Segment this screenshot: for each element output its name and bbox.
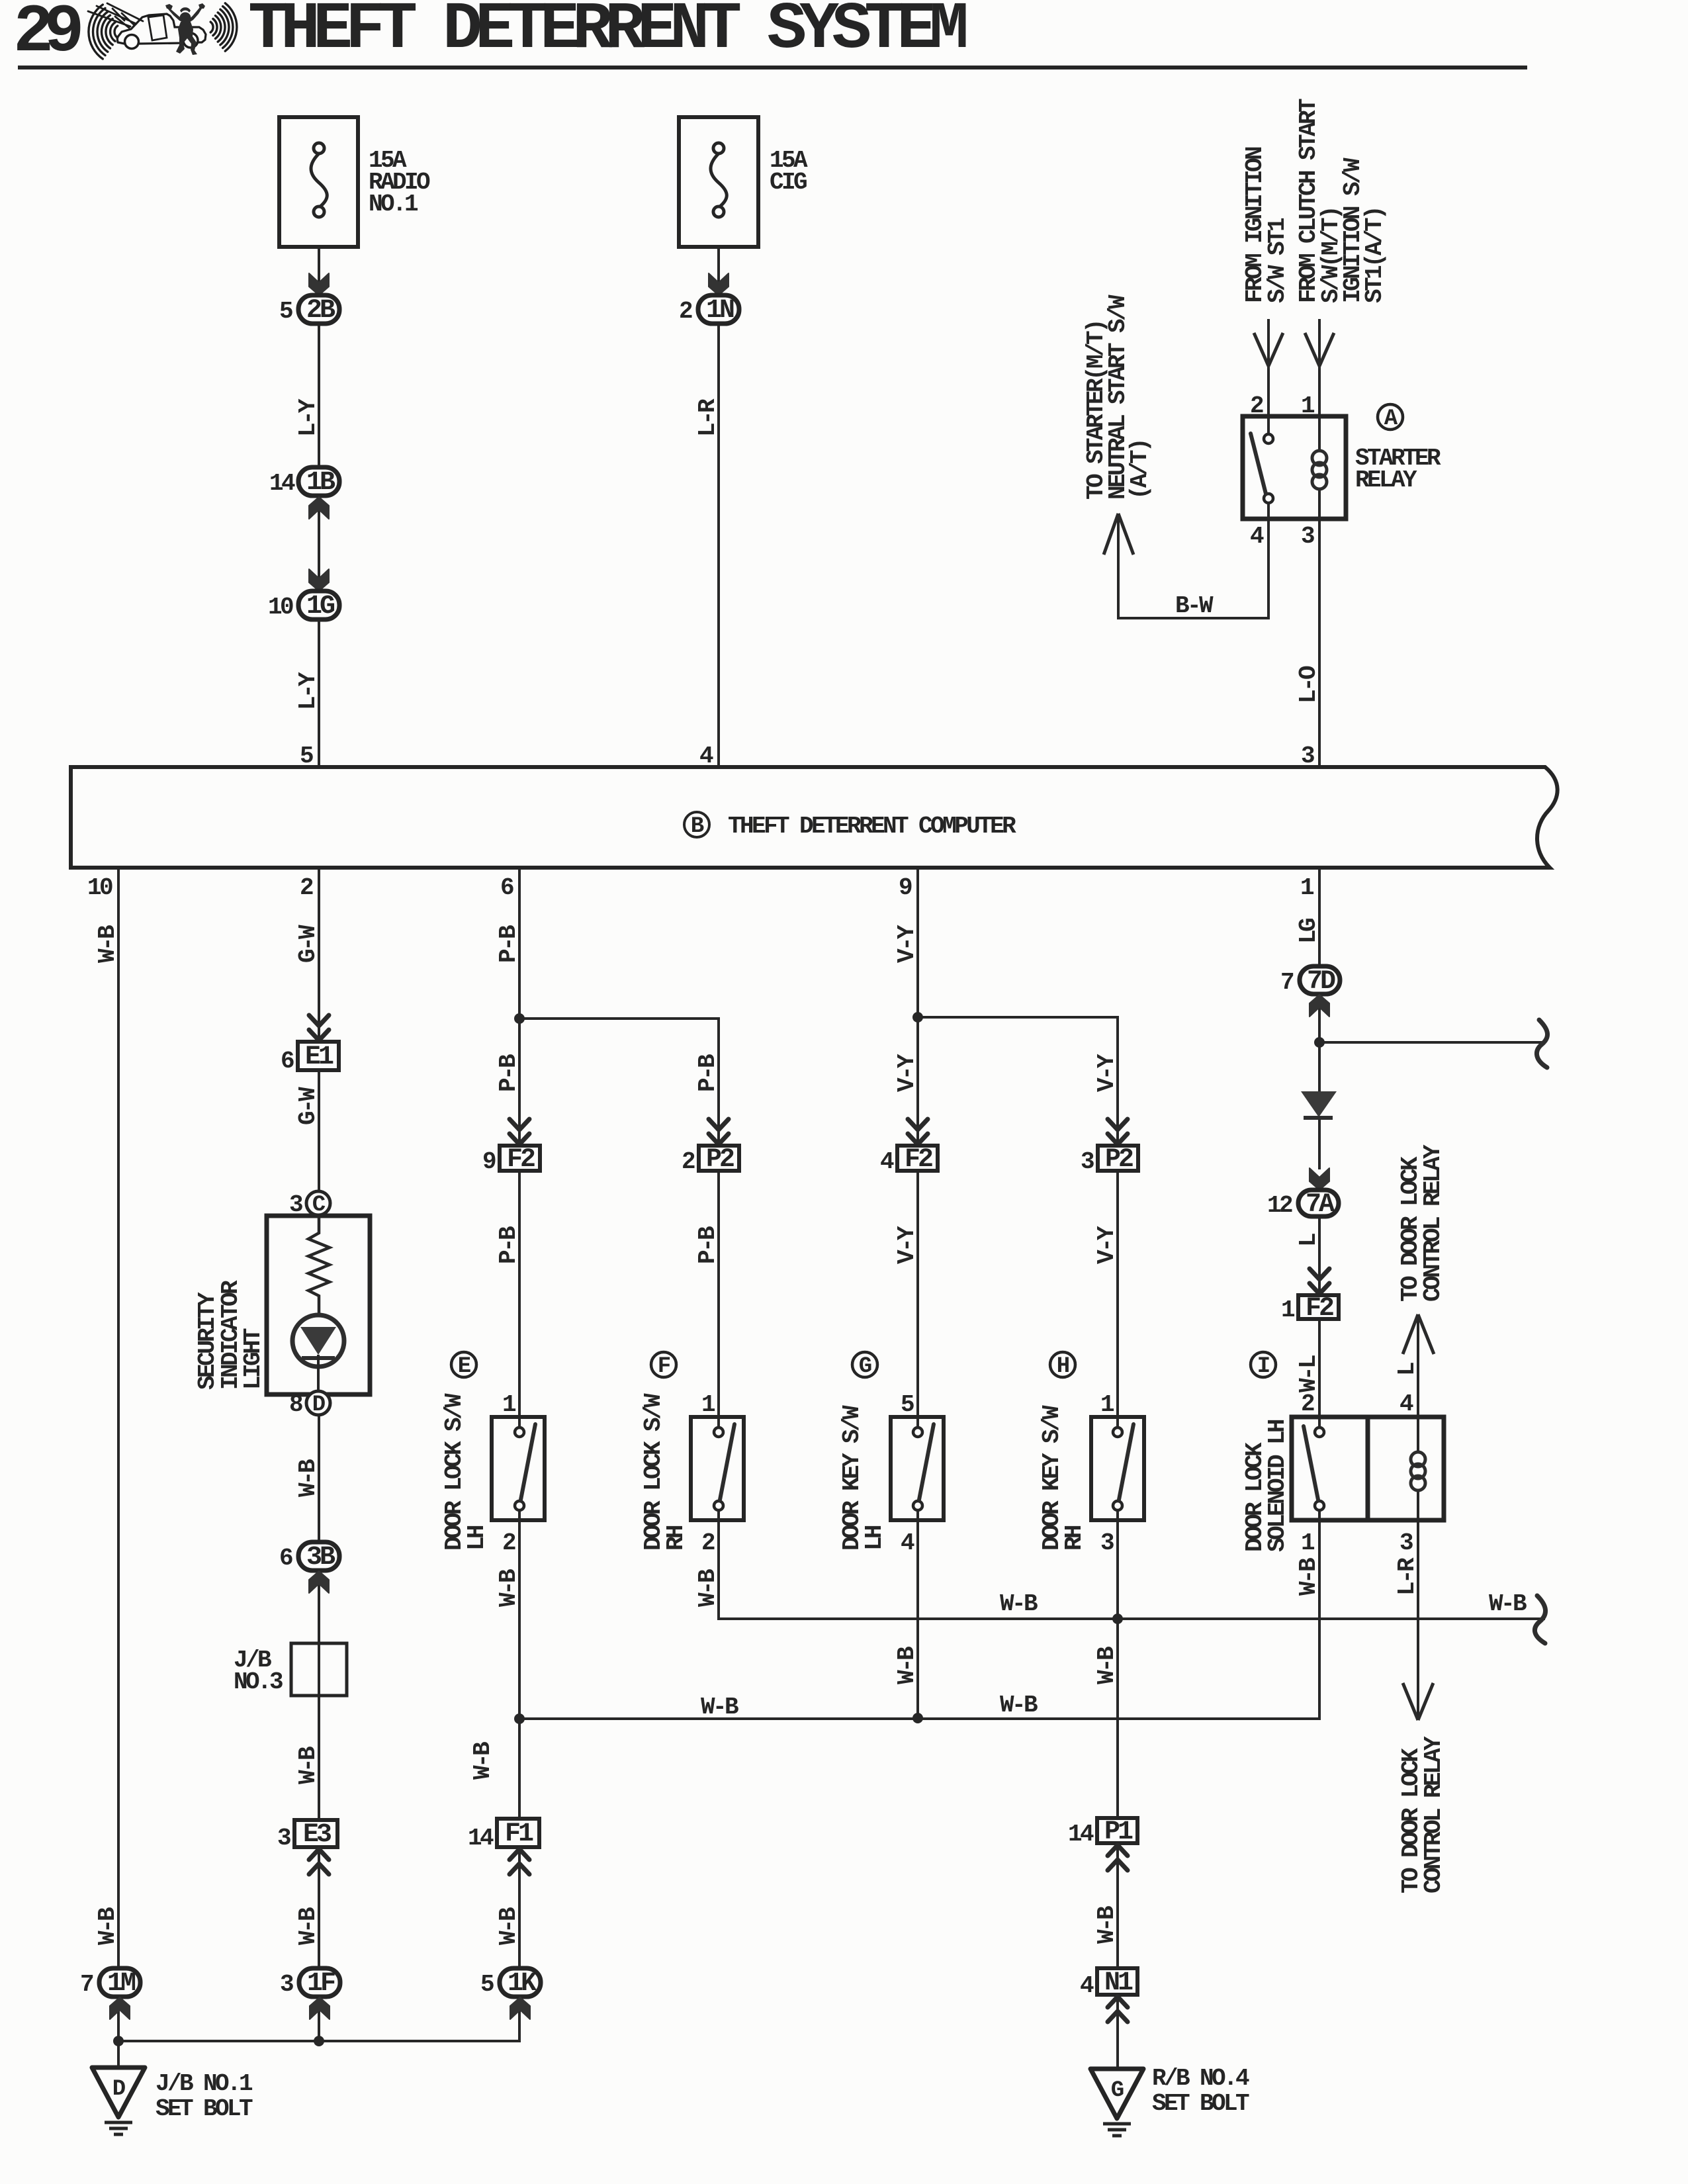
svg-text:L: L — [1295, 1234, 1322, 1247]
svg-text:10: 10 — [268, 594, 293, 621]
svg-text:W-B: W-B — [893, 1647, 920, 1684]
svg-text:W-L: W-L — [1295, 1355, 1322, 1392]
svg-text:THEFT DETERRENT COMPUTER: THEFT DETERRENT COMPUTER — [728, 813, 1016, 840]
svg-text:F2: F2 — [1306, 1294, 1333, 1324]
svg-text:L-R: L-R — [694, 398, 721, 437]
svg-text:F2: F2 — [507, 1145, 535, 1175]
svg-text:L-R: L-R — [1394, 1557, 1421, 1596]
svg-text:2: 2 — [701, 1529, 715, 1557]
svg-text:W-B: W-B — [1093, 1906, 1120, 1944]
svg-text:14: 14 — [269, 470, 295, 497]
svg-text:A: A — [1384, 406, 1398, 432]
svg-text:P-B: P-B — [495, 1226, 522, 1264]
svg-text:L-O: L-O — [1295, 666, 1322, 704]
svg-text:5: 5 — [300, 743, 313, 770]
svg-text:3: 3 — [1301, 523, 1314, 550]
svg-text:NO.3: NO.3 — [234, 1668, 283, 1696]
svg-text:I: I — [1257, 1354, 1269, 1379]
svg-text:2: 2 — [1250, 392, 1263, 420]
svg-text:N1: N1 — [1104, 1968, 1133, 1998]
svg-text:G: G — [1111, 2078, 1124, 2103]
svg-text:3: 3 — [1100, 1529, 1114, 1557]
svg-text:10: 10 — [87, 874, 112, 901]
svg-text:2: 2 — [502, 1529, 515, 1557]
svg-text:7: 7 — [80, 1971, 93, 1998]
svg-text:8: 8 — [289, 1391, 302, 1418]
svg-text:W-B: W-B — [294, 1459, 322, 1497]
svg-text:P-B: P-B — [694, 1054, 721, 1092]
svg-text:P-B: P-B — [495, 925, 522, 963]
svg-text:5: 5 — [279, 298, 292, 325]
svg-text:SET BOLT: SET BOLT — [1152, 2090, 1249, 2117]
svg-text:29: 29 — [13, 0, 81, 71]
svg-text:RH: RH — [1061, 1525, 1088, 1551]
svg-text:14: 14 — [468, 1825, 494, 1852]
svg-text:L: L — [1394, 1363, 1421, 1376]
svg-text:SOLENOID LH: SOLENOID LH — [1264, 1420, 1291, 1552]
svg-text:5: 5 — [901, 1391, 914, 1418]
svg-text:1: 1 — [1301, 1529, 1315, 1557]
svg-text:4: 4 — [699, 743, 713, 770]
svg-text:V-Y: V-Y — [1093, 1226, 1120, 1264]
svg-text:1: 1 — [1281, 1297, 1295, 1324]
svg-text:CONTROL RELAY: CONTROL RELAY — [1419, 1144, 1446, 1302]
svg-text:2: 2 — [682, 1148, 695, 1175]
svg-text:L-Y: L-Y — [294, 398, 322, 437]
svg-text:2: 2 — [679, 298, 692, 325]
svg-text:W-B: W-B — [294, 1747, 322, 1784]
svg-text:W-B: W-B — [94, 1907, 121, 1945]
svg-text:W-B: W-B — [495, 1907, 522, 1945]
svg-text:W-B: W-B — [1000, 1590, 1038, 1617]
svg-text:G-W: G-W — [294, 1087, 322, 1125]
svg-text:F: F — [658, 1354, 670, 1379]
svg-text:LH: LH — [463, 1525, 490, 1551]
svg-text:G: G — [859, 1354, 871, 1379]
svg-text:1: 1 — [1300, 874, 1314, 901]
svg-text:9: 9 — [482, 1148, 496, 1175]
svg-text:7: 7 — [1280, 969, 1294, 996]
svg-text:1: 1 — [701, 1391, 715, 1418]
svg-text:THEFT DETERRENT SYSTEM: THEFT DETERRENT SYSTEM — [248, 0, 966, 68]
svg-text:W-B: W-B — [495, 1569, 522, 1607]
svg-text:1K: 1K — [508, 1969, 537, 1999]
svg-text:4: 4 — [880, 1148, 894, 1175]
svg-text:4: 4 — [901, 1529, 914, 1557]
svg-text:LH: LH — [861, 1525, 888, 1551]
svg-text:3: 3 — [1301, 743, 1314, 770]
svg-text:12: 12 — [1267, 1192, 1292, 1219]
svg-text:V-Y: V-Y — [893, 925, 920, 963]
svg-text:1M: 1M — [107, 1969, 136, 1999]
svg-text:B: B — [691, 814, 704, 839]
svg-text:CIG: CIG — [770, 169, 807, 196]
svg-text:ST1(A/T): ST1(A/T) — [1361, 208, 1388, 303]
svg-text:(A/T): (A/T) — [1126, 440, 1153, 500]
svg-text:R/B NO.4: R/B NO.4 — [1152, 2065, 1249, 2092]
svg-text:4: 4 — [1080, 1972, 1094, 1999]
svg-text:W-B: W-B — [469, 1742, 496, 1780]
svg-text:B-W: B-W — [1175, 592, 1214, 619]
svg-text:D: D — [112, 2077, 126, 2102]
svg-text:6: 6 — [500, 874, 513, 901]
svg-text:2: 2 — [1301, 1390, 1314, 1418]
svg-text:W-B: W-B — [1489, 1590, 1527, 1617]
svg-text:RH: RH — [662, 1525, 689, 1551]
svg-text:RELAY: RELAY — [1355, 467, 1417, 494]
svg-text:1F: 1F — [307, 1969, 335, 1999]
svg-text:1B: 1B — [306, 468, 335, 498]
svg-text:3: 3 — [280, 1971, 293, 1998]
svg-text:V-Y: V-Y — [893, 1054, 920, 1092]
svg-text:7D: 7D — [1307, 967, 1335, 997]
svg-text:4: 4 — [1250, 523, 1264, 550]
svg-text:3: 3 — [277, 1825, 290, 1852]
svg-text:NO.1: NO.1 — [369, 191, 418, 218]
svg-text:W-B: W-B — [694, 1569, 721, 1607]
svg-text:P1: P1 — [1104, 1817, 1133, 1847]
svg-text:H: H — [1057, 1354, 1069, 1379]
svg-text:W-B: W-B — [1093, 1647, 1120, 1684]
svg-text:7A: 7A — [1306, 1190, 1335, 1220]
svg-text:E1: E1 — [305, 1042, 333, 1072]
svg-text:LG: LG — [1295, 919, 1322, 944]
svg-text:D: D — [312, 1392, 326, 1418]
svg-text:V-Y: V-Y — [893, 1226, 920, 1264]
svg-text:1G: 1G — [306, 592, 335, 621]
svg-text:F1: F1 — [505, 1819, 533, 1849]
svg-text:1N: 1N — [706, 296, 734, 326]
svg-text:1: 1 — [1301, 392, 1315, 420]
svg-text:9: 9 — [899, 874, 912, 901]
svg-text:W-B: W-B — [294, 1907, 322, 1945]
svg-text:3: 3 — [1081, 1148, 1094, 1175]
svg-text:J/B NO.1: J/B NO.1 — [155, 2070, 253, 2097]
svg-text:1: 1 — [1100, 1391, 1114, 1418]
svg-text:V-Y: V-Y — [1093, 1054, 1120, 1092]
svg-text:E: E — [458, 1354, 471, 1379]
svg-text:P2: P2 — [706, 1145, 734, 1175]
svg-text:P-B: P-B — [694, 1226, 721, 1264]
svg-text:6: 6 — [281, 1048, 294, 1075]
svg-text:SET BOLT: SET BOLT — [155, 2095, 253, 2122]
svg-text:5: 5 — [480, 1971, 494, 1998]
svg-text:14: 14 — [1068, 1821, 1094, 1848]
svg-text:2B: 2B — [306, 296, 335, 326]
svg-text:W-B: W-B — [1295, 1558, 1322, 1596]
svg-text:W-B: W-B — [701, 1694, 738, 1721]
svg-text:W-B: W-B — [94, 925, 121, 963]
svg-text:4: 4 — [1399, 1390, 1413, 1418]
svg-text:F2: F2 — [905, 1145, 932, 1175]
svg-text:3: 3 — [1399, 1529, 1413, 1557]
svg-text:1: 1 — [502, 1391, 516, 1418]
svg-text:2: 2 — [300, 874, 313, 901]
svg-text:3B: 3B — [306, 1543, 335, 1572]
svg-text:G-W: G-W — [294, 925, 322, 963]
svg-text:P-B: P-B — [495, 1054, 522, 1092]
svg-text:CONTROL RELAY: CONTROL RELAY — [1420, 1736, 1447, 1893]
svg-text:W-B: W-B — [1000, 1692, 1038, 1719]
svg-text:P2: P2 — [1105, 1145, 1133, 1175]
svg-text:LIGHT: LIGHT — [240, 1328, 267, 1390]
svg-text:E3: E3 — [303, 1820, 331, 1850]
svg-text:L-Y: L-Y — [294, 672, 322, 710]
svg-text:S/W ST1: S/W ST1 — [1264, 218, 1291, 303]
svg-text:6: 6 — [279, 1545, 292, 1572]
